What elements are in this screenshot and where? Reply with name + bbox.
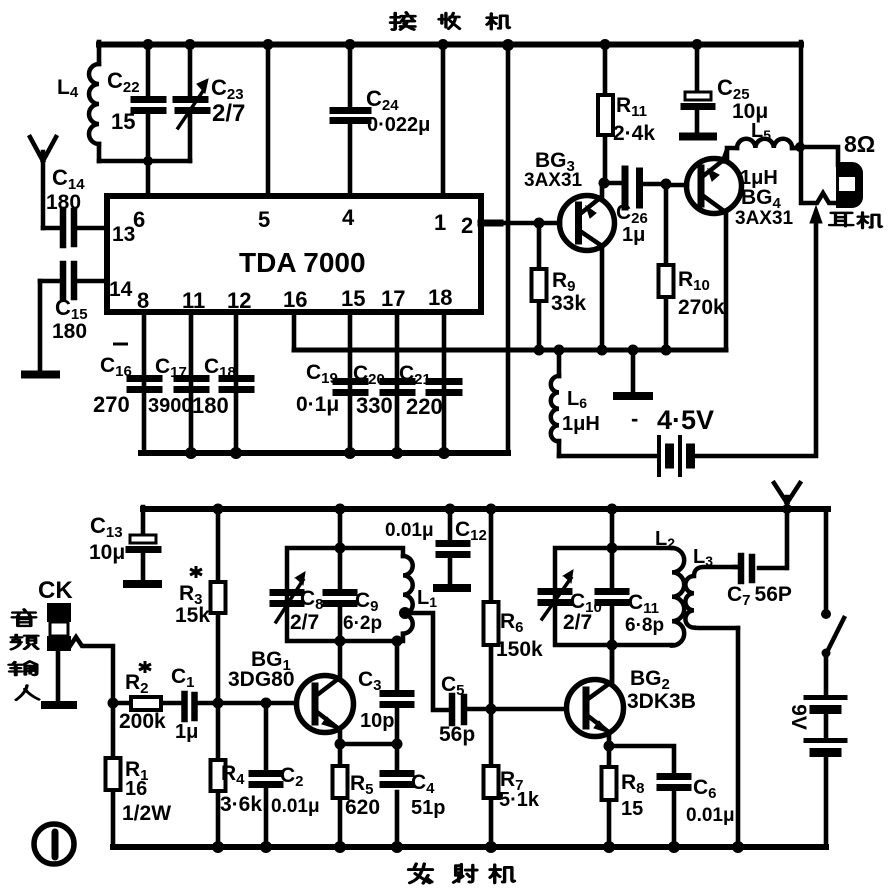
- svg-text:9V: 9V: [787, 704, 810, 730]
- capacitor C26: [604, 183, 666, 184]
- ic U1 TDA7000: [107, 196, 481, 312]
- svg-text:180: 180: [192, 393, 229, 418]
- svg-text:TDA 7000: TDA 7000: [239, 247, 366, 278]
- ground CK: [45, 701, 73, 709]
- svg-text:CK: CK: [38, 577, 73, 604]
- wire C7 to antenna: [785, 511, 790, 568]
- svg-text:15: 15: [111, 109, 135, 134]
- wire jack to R2 node: [70, 637, 113, 703]
- transistor BG3: [560, 196, 615, 251]
- svg-text:0.01μ: 0.01μ: [385, 520, 434, 541]
- svg-text:8: 8: [137, 288, 149, 313]
- wire jack sleeve ground: [56, 650, 61, 701]
- svg-text:13: 13: [112, 223, 135, 246]
- capacitor C23 (trimmer): [188, 42, 193, 161]
- svg-text:3DK3B: 3DK3B: [627, 690, 696, 713]
- node L1 tap: [399, 607, 411, 619]
- capacitor C12: [448, 509, 453, 584]
- inductor L6: [557, 352, 562, 376]
- wire rail to box1: [338, 509, 343, 548]
- node emitter BG1: [335, 739, 346, 750]
- svg-text:10p: 10p: [360, 710, 394, 732]
- inductor L5: [737, 139, 792, 148]
- node base BG2: [486, 704, 497, 715]
- tank box 1 C8 C9 L1: [287, 548, 403, 641]
- svg-text:2/7: 2/7: [212, 100, 245, 127]
- label ru (input): [16, 685, 39, 699]
- wire top rail: [99, 42, 801, 48]
- label shu (input): [9, 661, 36, 675]
- svg-text:2/7: 2/7: [290, 611, 319, 634]
- inductor L2: [672, 548, 684, 646]
- node L5 right: [795, 142, 805, 152]
- label title shou (receive): [439, 13, 460, 29]
- node C26 left right: [599, 178, 610, 189]
- capacitor C4: [395, 744, 400, 847]
- label yin (audio): [12, 609, 36, 626]
- svg-text:0·1μ: 0·1μ: [296, 393, 339, 416]
- ground C13: [127, 580, 158, 588]
- node dots top rail: [143, 39, 154, 50]
- capacitor C8 trimmer: [273, 593, 301, 604]
- svg-text:15: 15: [621, 798, 643, 820]
- capacitor C18: [222, 379, 251, 390]
- svg-text:180: 180: [52, 320, 87, 343]
- resistor R1: [111, 703, 116, 847]
- svg-text:0.01μ: 0.01μ: [686, 805, 735, 826]
- capacitor C20: [383, 382, 412, 393]
- wire rail-to-ground-rail vertical: [506, 44, 511, 453]
- capacitor C22: [146, 42, 151, 161]
- capacitor C6: [660, 777, 688, 788]
- svg-text:C756P: C756P: [727, 583, 792, 609]
- antenna TX: [774, 483, 800, 511]
- wire TX top rail: [143, 506, 828, 512]
- transistor BG2: [567, 680, 624, 737]
- ground 4.5V: [631, 350, 636, 392]
- battery BT 4.5V: [659, 437, 680, 475]
- node ground rail dots: [185, 447, 197, 459]
- capacitor C21: [429, 382, 459, 393]
- svg-text:12: 12: [227, 288, 251, 313]
- svg-text:1/2W: 1/2W: [122, 802, 171, 825]
- transistor BG4: [687, 159, 742, 214]
- svg-text:180: 180: [46, 191, 81, 214]
- svg-text:15k: 15k: [175, 604, 210, 627]
- node C22-pin6: [146, 161, 151, 196]
- svg-text:2/7: 2/7: [563, 611, 592, 634]
- wire earphone left loop: [801, 42, 839, 203]
- svg-text:270: 270: [93, 392, 130, 417]
- wire rail right down to switch: [824, 509, 829, 611]
- svg-text:16: 16: [283, 287, 307, 312]
- label title ji2 (machine): [490, 865, 514, 883]
- capacitor C5: [452, 696, 464, 723]
- svg-text:3·6k: 3·6k: [220, 793, 262, 816]
- wire emitter BG1: [340, 742, 397, 747]
- ground C15: [25, 371, 56, 379]
- svg-text:1μ: 1μ: [175, 721, 198, 743]
- svg-text:-: -: [631, 406, 638, 431]
- capacitor C2: [264, 703, 269, 847]
- wire base BG1: [215, 701, 296, 706]
- svg-text:56p: 56p: [439, 723, 475, 746]
- wire pin15: [348, 312, 353, 451]
- label R2: [139, 661, 151, 673]
- svg-text:1: 1: [434, 210, 446, 235]
- node box2: [607, 543, 618, 554]
- wire pin18: [442, 312, 447, 451]
- svg-text:270k: 270k: [678, 296, 725, 319]
- wire mid rail: [294, 348, 726, 353]
- capacitor C17: [177, 379, 206, 390]
- label pin (frequency): [11, 635, 37, 650]
- resistor R8: [607, 746, 612, 847]
- node TX ground rail dots: [212, 841, 224, 853]
- svg-text:2: 2: [461, 213, 473, 238]
- antenna RX: [30, 137, 56, 228]
- svg-text:4·5V: 4·5V: [657, 405, 714, 435]
- wire C15 to ground: [38, 281, 43, 370]
- wire L1 tap to C5: [405, 613, 449, 710]
- node base BG3: [534, 218, 545, 229]
- capacitor C24: [348, 42, 353, 196]
- resistor R3: [216, 509, 221, 703]
- label title she (transmit): [454, 864, 477, 882]
- pin2 stub: [481, 220, 500, 227]
- node tank bottom: [143, 156, 153, 166]
- svg-text:10μ: 10μ: [89, 541, 125, 564]
- svg-text:1μ: 1μ: [622, 224, 645, 246]
- TEXT-TX: [38, 513, 810, 826]
- svg-text:6·8p: 6·8p: [625, 615, 664, 636]
- wire pin12: [234, 312, 239, 451]
- svg-text:5·1k: 5·1k: [499, 789, 540, 811]
- wire pin11: [189, 312, 194, 451]
- svg-text:15: 15: [341, 286, 365, 311]
- capacitor C3: [395, 641, 400, 744]
- switch S1: [827, 618, 844, 652]
- svg-text:4: 4: [342, 205, 355, 230]
- svg-text:0·022μ: 0·022μ: [367, 114, 430, 136]
- ground C25: [683, 133, 713, 141]
- label title fa (transmit): [409, 864, 433, 883]
- wire battery RX left: [559, 454, 656, 459]
- wire base BG3: [499, 221, 560, 226]
- wire TX ground rail: [113, 844, 826, 850]
- capacitor C10 trimmer: [541, 592, 569, 603]
- resistor R5: [338, 744, 343, 847]
- svg-text:2·4k: 2·4k: [613, 122, 655, 145]
- label erji (earphone) er: [830, 213, 854, 226]
- svg-text:3AX31: 3AX31: [524, 170, 583, 191]
- svg-text:0.01μ: 0.01μ: [271, 796, 320, 817]
- TRANSMITTER-SECTION: [45, 483, 845, 847]
- capacitor C14: [43, 226, 107, 231]
- node mid rail dots: [534, 345, 545, 356]
- wire earphone top: [800, 147, 838, 165]
- earphone 8ohm: [837, 163, 862, 207]
- svg-text:330: 330: [356, 393, 393, 418]
- ground C12: [437, 584, 467, 592]
- resistor R11: [603, 42, 608, 183]
- resistor R9: [537, 223, 542, 350]
- wire pin5: [266, 42, 271, 196]
- svg-text:11: 11: [182, 288, 205, 313]
- label R3: [190, 566, 202, 578]
- wire battery RX right: [694, 222, 816, 456]
- wire left branch to L4: [97, 42, 102, 64]
- capacitor C16: [130, 379, 159, 390]
- wire pin8: [142, 312, 147, 451]
- JUNCTION-DOTS-TX: [108, 504, 832, 854]
- capacitor C13 electrolytic: [141, 507, 146, 580]
- inductor L1: [403, 556, 413, 634]
- resistor R4: [216, 703, 221, 847]
- svg-text:8Ω: 8Ω: [844, 131, 875, 157]
- JUNCTION-DOTS-RX: [143, 39, 806, 459]
- svg-text:6·2p: 6·2p: [343, 613, 382, 634]
- wire tank bottom: [99, 159, 190, 164]
- wire pin1: [441, 42, 446, 196]
- svg-text:3AX31: 3AX31: [735, 208, 794, 229]
- label erji (earphone) ji: [858, 213, 882, 229]
- svg-text:150k: 150k: [496, 638, 543, 661]
- svg-text:18: 18: [428, 285, 452, 310]
- svg-text:3DG80: 3DG80: [228, 668, 295, 691]
- capacitor C19: [336, 382, 365, 393]
- svg-text:17: 17: [381, 286, 405, 311]
- svg-text:16: 16: [125, 778, 147, 800]
- figure mark circled 1: [34, 824, 74, 864]
- capacitor C7: [735, 567, 786, 568]
- wire rail to box2 / collector BG2: [610, 509, 615, 681]
- wire pin16: [292, 312, 297, 350]
- resistor R7: [489, 708, 494, 847]
- transistor BG1: [297, 676, 354, 733]
- capacitor C25 electrolytic: [695, 42, 700, 132]
- capacitor C9: [338, 548, 343, 641]
- wire ground rail RX: [141, 450, 508, 456]
- node box1: [335, 543, 346, 554]
- svg-text:51p: 51p: [411, 797, 445, 819]
- svg-text:220: 220: [406, 394, 443, 419]
- resistor R2: [113, 701, 181, 706]
- wire emitter BG2: [609, 746, 674, 773]
- resistor R6: [489, 509, 494, 708]
- capacitor C1: [198, 701, 215, 706]
- node switch: [821, 609, 831, 619]
- capacitor C15: [40, 279, 107, 284]
- node TX rail dots: [213, 504, 224, 515]
- label title jie (receive): [391, 12, 415, 29]
- tank box 2 C10 C11 L2: [555, 548, 672, 645]
- node R2 C1: [108, 698, 119, 709]
- capacitor C11: [610, 548, 615, 645]
- svg-text:620: 620: [345, 796, 380, 819]
- inductor L4: [89, 64, 99, 144]
- inductor L3: [685, 567, 738, 628]
- resistor R10: [664, 184, 669, 350]
- jack CK: [48, 604, 70, 621]
- node emitter BG2: [604, 741, 615, 752]
- battery BT 9V: [806, 698, 845, 741]
- wire pin17: [395, 312, 400, 451]
- svg-text:3900: 3900: [148, 395, 193, 417]
- svg-text:200k: 200k: [119, 710, 166, 733]
- svg-text:1μH: 1μH: [562, 413, 600, 435]
- svg-text:5: 5: [258, 207, 270, 232]
- label title ji (machine): [487, 14, 510, 30]
- svg-text:33k: 33k: [551, 292, 586, 315]
- svg-text:14: 14: [109, 278, 133, 301]
- TEXT-RX: [46, 68, 875, 435]
- jack plug arrow: [810, 206, 822, 223]
